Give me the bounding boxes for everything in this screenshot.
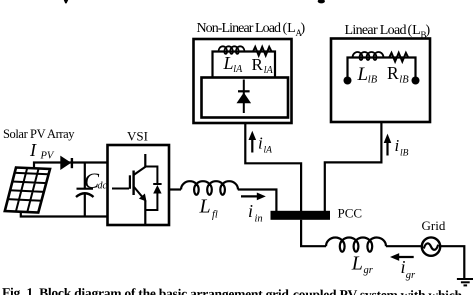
VSI box: [108, 145, 170, 225]
svg-text:Grid: Grid: [422, 218, 446, 233]
label i_gr: [401, 257, 417, 281]
label i_in: [248, 201, 263, 225]
svg-text:PCC: PCC: [338, 206, 363, 221]
IGBT gate lead: [112, 188, 129, 190]
wire: LlA-RlA branch: [213, 52, 276, 78]
PCC busbar: [271, 211, 331, 220]
svg-text:(L: (L: [408, 23, 421, 38]
svg-text:lA: lA: [233, 64, 243, 75]
linear load box: [331, 39, 430, 123]
current arrow i_in: [241, 193, 266, 201]
svg-text:L: L: [351, 253, 363, 275]
svg-text:I: I: [29, 140, 37, 160]
wire: LlB-RlB branch: [348, 58, 416, 81]
resistor RlA: [252, 47, 274, 56]
IGBT emitter lead: [144, 201, 146, 225]
AC source circle (grid): [422, 237, 440, 255]
solar PV array panel: [5, 168, 50, 213]
IGBT gate bar: [129, 175, 131, 189]
cropped text line fragment (top g descender): [318, 0, 325, 3]
IGBT collector lead: [144, 154, 146, 168]
capacitor Cdc branch wire bottom: [84, 193, 86, 217]
svg-text:gr: gr: [406, 270, 416, 281]
wire: VSI to Lfl: [169, 188, 181, 190]
freewheel diode cathode bar: [153, 183, 161, 185]
wire: Lfl to PCC: [238, 190, 277, 212]
svg-text:PV: PV: [40, 151, 55, 162]
node dot left: [344, 77, 352, 85]
inductor LlA: [219, 46, 245, 54]
svg-text:): ): [301, 21, 306, 36]
svg-text:R: R: [387, 63, 399, 83]
wire: non-linear load to PCC: [245, 123, 301, 211]
label Cdc: [84, 168, 108, 193]
label LlA: [223, 53, 244, 75]
svg-text:i: i: [248, 201, 253, 221]
svg-text:fl: fl: [212, 210, 218, 221]
svg-text:(L: (L: [283, 21, 296, 36]
wire: panel stub to top rail: [34, 163, 108, 169]
label Lfl: [199, 196, 218, 221]
label: Non-Linear Load (LA): [197, 21, 306, 38]
diode D1 (rectifier) wire: [243, 80, 245, 114]
diode D1 triangle: [237, 93, 252, 104]
svg-text:gr: gr: [364, 265, 374, 276]
label I_PV: [29, 140, 55, 162]
svg-text:L: L: [199, 196, 211, 218]
capacitor Cdc branch wire top: [84, 163, 86, 189]
current arrow i_lB: [384, 134, 392, 156]
node dot right: [412, 77, 420, 85]
IGBT body bar: [132, 171, 134, 196]
wire: panel bottom to bottom rail: [21, 212, 108, 217]
resistor RlB: [388, 53, 410, 62]
inductor Lfl: [181, 181, 238, 195]
label RlA: [252, 55, 274, 76]
svg-text:i: i: [258, 134, 263, 153]
IGBT emitter diagonal: [134, 187, 144, 199]
current arrow i_gr: [390, 253, 414, 261]
capacitor Cdc top plate: [77, 188, 94, 190]
IGBT collector diagonal: [134, 167, 146, 176]
svg-text:L: L: [357, 64, 369, 85]
svg-text:L: L: [223, 53, 234, 73]
non-linear load outer box: [194, 39, 292, 123]
svg-text:Non-Linear Load: Non-Linear Load: [197, 21, 282, 36]
diode cathode bar: [71, 158, 73, 168]
ground symbol: [457, 279, 473, 285]
svg-text:VSI: VSI: [127, 129, 148, 144]
wire: Lgr to grid source: [386, 245, 422, 247]
label LlB: [357, 64, 378, 86]
svg-text:dc: dc: [98, 181, 108, 192]
svg-text:R: R: [252, 55, 264, 74]
inductor LlB: [353, 52, 384, 60]
inductor Lgr: [326, 238, 386, 252]
svg-text:): ): [426, 23, 431, 38]
svg-text:lA: lA: [264, 146, 273, 156]
non-linear load inner box (rectifier block): [202, 78, 289, 118]
svg-text:Solar PV Array: Solar PV Array: [3, 127, 75, 141]
svg-text:lB: lB: [400, 149, 409, 159]
svg-text:lB: lB: [368, 74, 378, 85]
freewheel diode branch wires: [145, 167, 157, 211]
wire: linear load to PCC: [325, 122, 382, 211]
capacitor Cdc bottom plate (curved): [76, 193, 94, 197]
svg-text:in: in: [255, 214, 263, 225]
wire: PCC to grid branch: [301, 220, 326, 246]
svg-text:lB: lB: [399, 74, 409, 85]
IGBT emitter arrowhead: [139, 194, 147, 202]
freewheel diode triangle: [153, 185, 161, 194]
diode D1 cathode bar: [238, 90, 250, 92]
label: Linear Load (LB): [345, 23, 431, 40]
label i_lA: [258, 134, 272, 156]
AC source sine: [424, 243, 438, 249]
svg-text:i: i: [395, 136, 400, 155]
label i_lB: [395, 136, 409, 159]
diode (PV blocking) triangle: [60, 156, 71, 170]
current arrow i_lA: [249, 131, 257, 153]
svg-text:i: i: [401, 257, 406, 277]
svg-text:Fig. 1. Block diagram of the b: Fig. 1. Block diagram of the basic arran…: [2, 285, 463, 295]
label Lgr: [351, 253, 374, 277]
svg-text:lA: lA: [264, 65, 274, 76]
label RlB: [387, 63, 409, 85]
cropped text line fragment (top left descender): [64, 0, 68, 3]
wire: grid source to ground: [440, 246, 464, 279]
svg-text:Linear Load: Linear Load: [345, 23, 407, 38]
